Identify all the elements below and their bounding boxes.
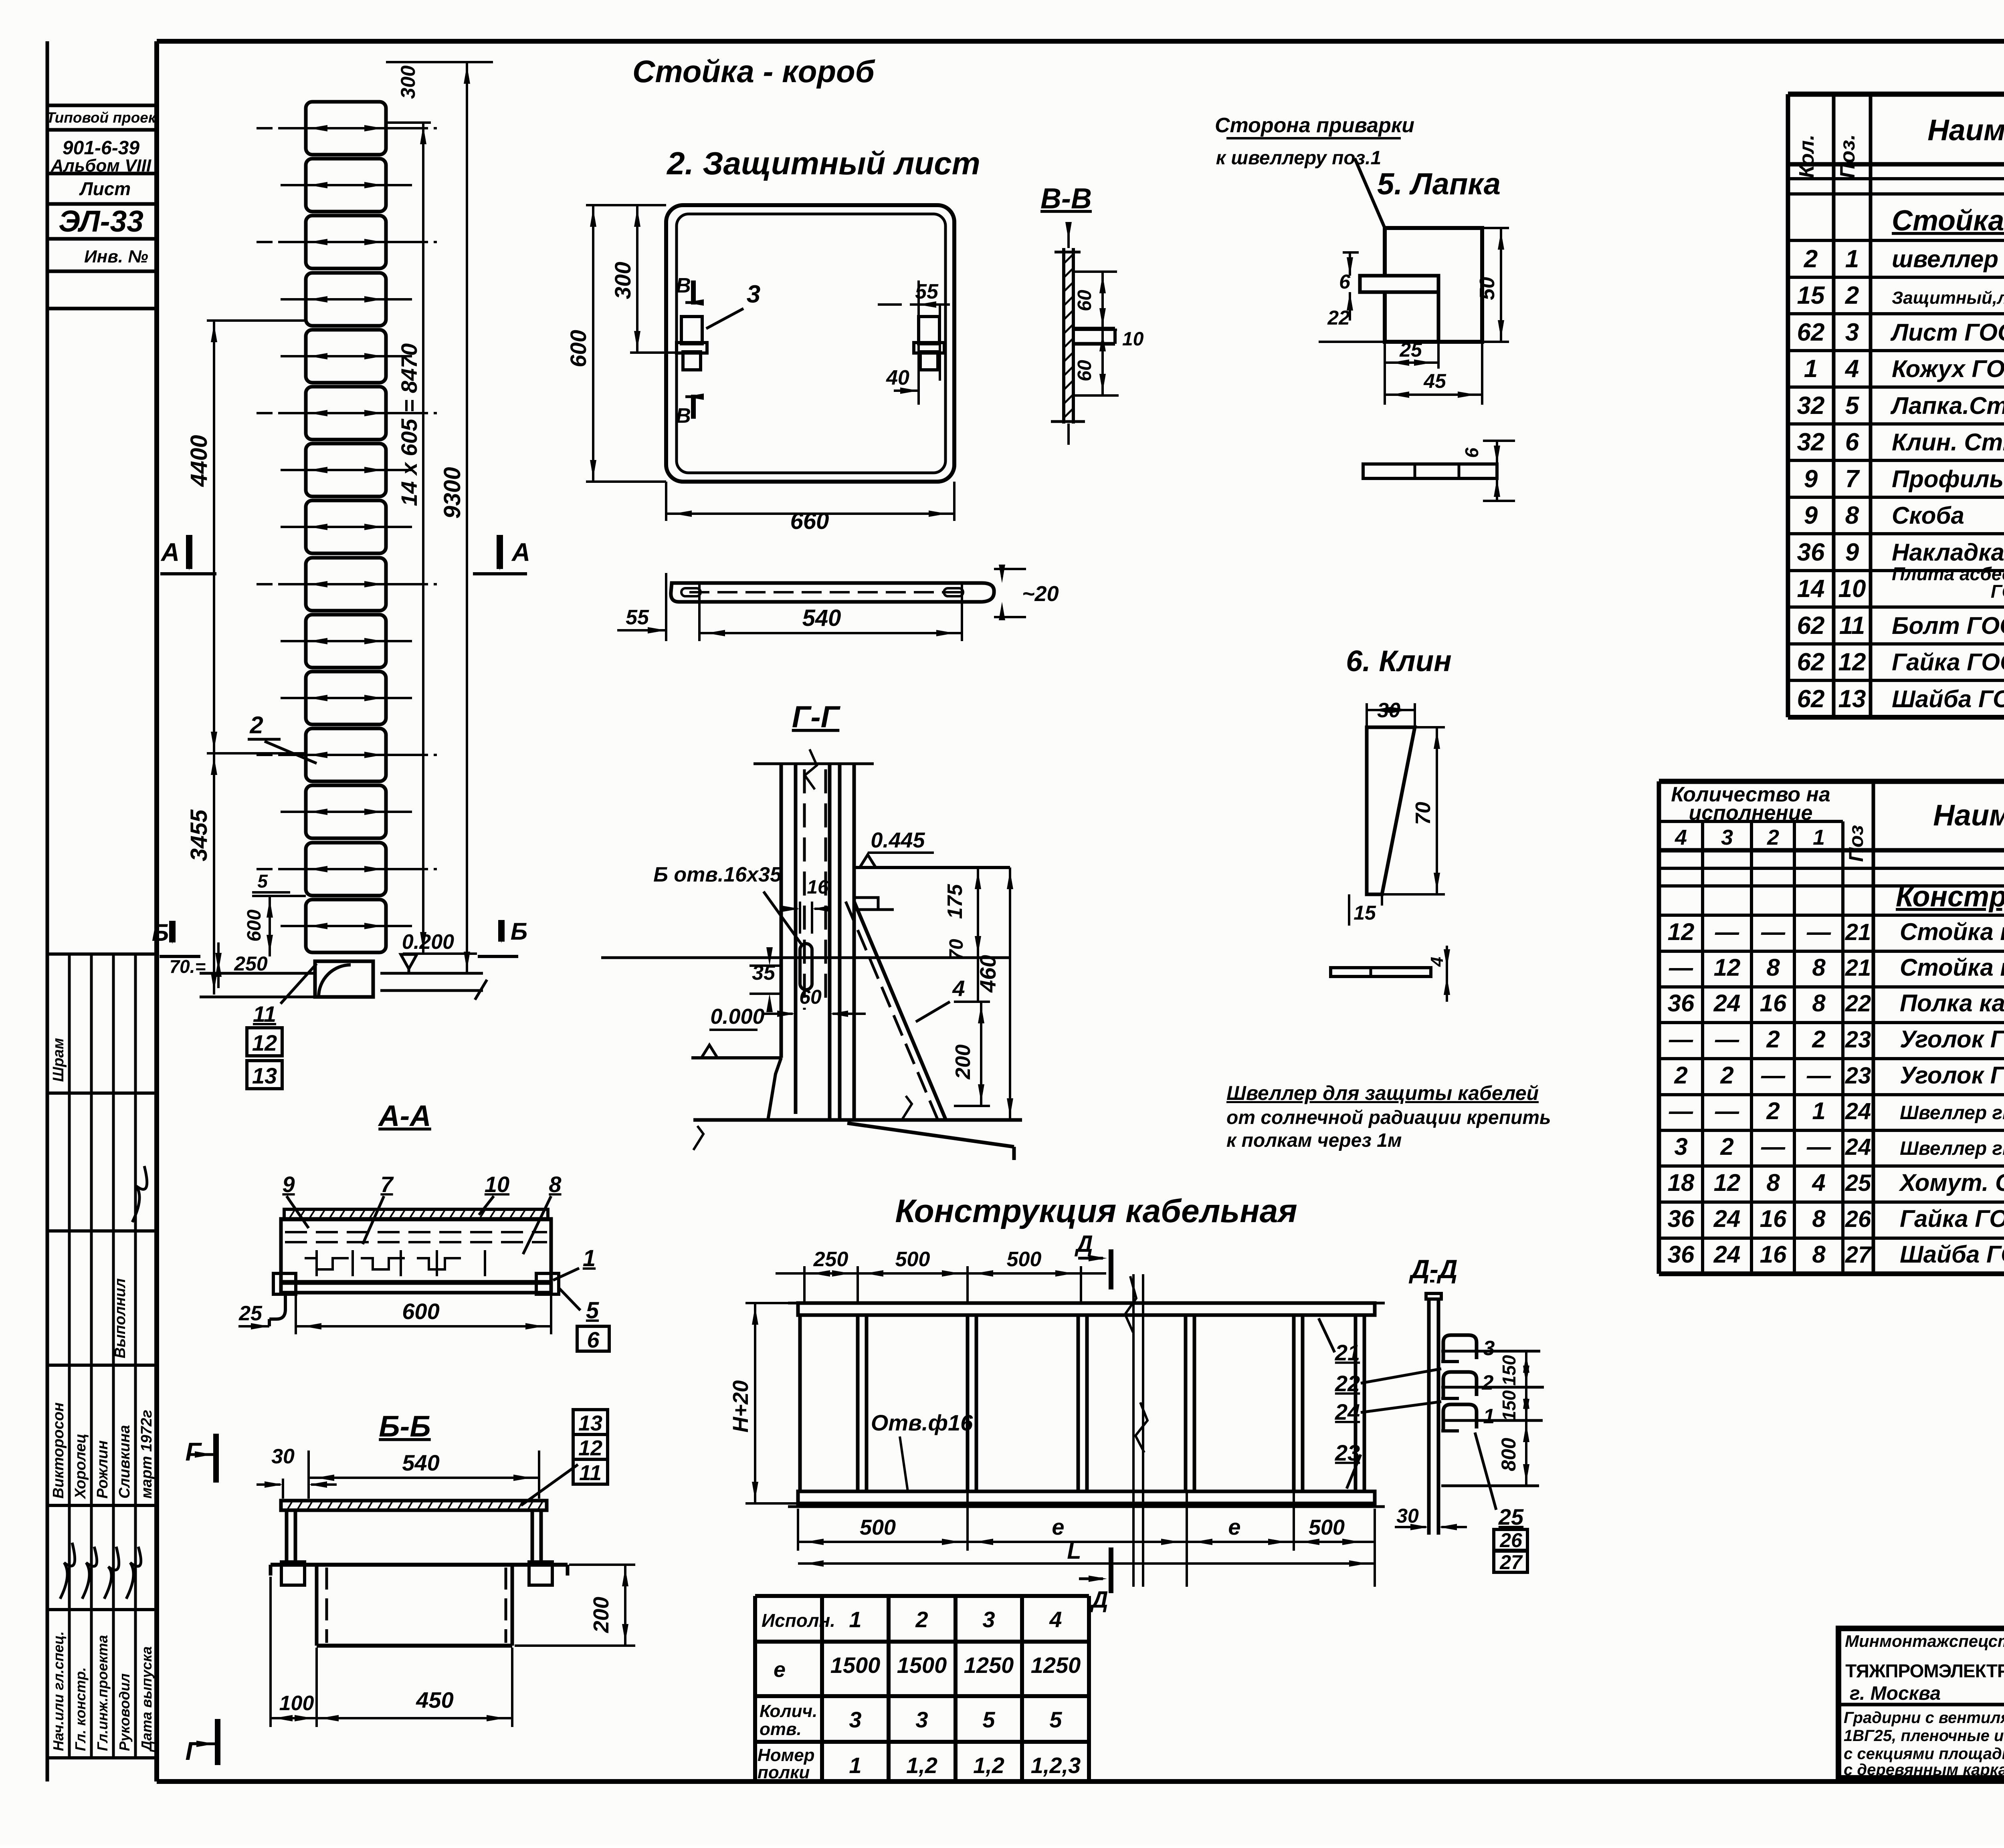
svg-text:Наименование: Наименование — [1927, 113, 2004, 147]
svg-text:15: 15 — [1797, 282, 1825, 309]
svg-text:к полкам через 1м: к полкам через 1м — [1226, 1130, 1402, 1151]
svg-text:е: е — [1228, 1514, 1240, 1539]
svg-text:26: 26 — [1845, 1206, 1871, 1232]
svg-text:12: 12 — [578, 1436, 602, 1460]
svg-text:18: 18 — [1668, 1169, 1695, 1196]
svg-text:1500: 1500 — [830, 1652, 881, 1678]
svg-text:—: — — [1669, 954, 1693, 981]
svg-text:швеллер ГОСТ 8240-56: швеллер ГОСТ 8240-56 — [1892, 246, 2004, 272]
svg-text:е: е — [1052, 1514, 1064, 1539]
svg-text:Нач.или гл.спец.: Нач.или гл.спец. — [50, 1631, 67, 1751]
svg-text:Сторона приварки: Сторона приварки — [1215, 114, 1414, 137]
svg-text:2: 2 — [1766, 1026, 1780, 1053]
svg-text:Инв. №: Инв. № — [84, 247, 148, 266]
svg-text:62: 62 — [1797, 648, 1825, 676]
svg-text:12: 12 — [1714, 1169, 1741, 1196]
svg-text:Г-Г: Г-Г — [792, 700, 841, 734]
svg-text:2: 2 — [1766, 1098, 1780, 1124]
svg-text:Лист: Лист — [79, 178, 131, 199]
svg-text:24: 24 — [1713, 1205, 1741, 1232]
svg-text:3: 3 — [1483, 1337, 1495, 1360]
svg-text:16: 16 — [807, 877, 828, 898]
svg-text:3455: 3455 — [186, 809, 212, 861]
svg-text:24: 24 — [1713, 1241, 1741, 1268]
svg-text:—: — — [1806, 918, 1831, 945]
svg-text:25: 25 — [1498, 1504, 1524, 1529]
svg-text:55: 55 — [626, 606, 649, 629]
svg-text:с деревянным каркасом: с деревянным каркасом — [1844, 1761, 2004, 1779]
svg-text:4: 4 — [1812, 1169, 1825, 1196]
svg-text:10: 10 — [485, 1172, 509, 1197]
svg-text:4: 4 — [1675, 825, 1687, 849]
svg-text:Лист ГОСТ 3680-57: Лист ГОСТ 3680-57 — [1890, 319, 2004, 346]
svg-text:Руководил: Руководил — [116, 1673, 133, 1751]
svg-text:Сливкина: Сливкина — [116, 1425, 133, 1499]
svg-text:22: 22 — [1327, 307, 1350, 329]
svg-text:исполнение: исполнение — [1689, 801, 1813, 825]
svg-text:В: В — [676, 274, 691, 297]
svg-text:60: 60 — [1074, 360, 1095, 381]
svg-text:62: 62 — [1797, 685, 1825, 713]
svg-text:1,2,3: 1,2,3 — [1031, 1753, 1081, 1778]
svg-text:~20: ~20 — [1022, 582, 1059, 606]
svg-text:Стойка кабельная: Стойка кабельная — [1900, 918, 2004, 945]
svg-text:Г: Г — [185, 1437, 202, 1466]
svg-text:2: 2 — [1482, 1371, 1494, 1394]
svg-text:5: 5 — [982, 1707, 995, 1732]
svg-text:25: 25 — [1845, 1170, 1871, 1196]
svg-text:30: 30 — [271, 1445, 295, 1468]
svg-text:70: 70 — [946, 939, 967, 960]
svg-text:2: 2 — [1720, 1133, 1733, 1160]
svg-text:24: 24 — [1713, 990, 1741, 1017]
svg-text:12: 12 — [252, 1030, 277, 1055]
svg-text:2: 2 — [1804, 245, 1818, 273]
svg-text:300: 300 — [610, 262, 635, 299]
svg-text:250: 250 — [234, 952, 268, 975]
svg-text:21: 21 — [1335, 1340, 1360, 1365]
svg-text:36: 36 — [1668, 990, 1695, 1017]
svg-text:600: 600 — [244, 910, 265, 942]
svg-text:Гайка ГОСТ 5915-70: Гайка ГОСТ 5915-70 — [1892, 649, 2004, 676]
svg-text:1,2: 1,2 — [973, 1753, 1004, 1778]
svg-text:16: 16 — [1760, 990, 1787, 1017]
svg-text:25: 25 — [1399, 339, 1422, 361]
svg-text:6: 6 — [1845, 428, 1859, 456]
svg-text:2: 2 — [1720, 1062, 1733, 1089]
svg-text:Стойка - короб: Стойка - короб — [632, 54, 875, 89]
svg-text:Гл.инж.проекта: Гл.инж.проекта — [94, 1635, 111, 1751]
svg-text:22: 22 — [1335, 1371, 1360, 1396]
svg-text:1500: 1500 — [897, 1652, 947, 1678]
svg-text:А-А: А-А — [378, 1099, 431, 1132]
svg-text:Градирни с вентиляторами: Градирни с вентиляторами — [1844, 1709, 2004, 1727]
svg-text:11: 11 — [1839, 612, 1865, 640]
svg-text:Д: Д — [1074, 1231, 1093, 1257]
svg-text:—: — — [1715, 1026, 1739, 1053]
svg-text:—: — — [1761, 1133, 1786, 1160]
svg-text:Рожлин: Рожлин — [94, 1440, 111, 1499]
svg-text:Лапка.Ст. ГОСТ103-57: Лапка.Ст. ГОСТ103-57 — [1890, 392, 2004, 419]
svg-text:16: 16 — [1760, 1241, 1787, 1268]
svg-text:36: 36 — [1668, 1241, 1695, 1268]
svg-text:ТЯЖПРОМЭЛЕКТРОПРОЕКТ: ТЯЖПРОМЭЛЕКТРОПРОЕКТ — [1845, 1660, 2004, 1681]
svg-text:450: 450 — [416, 1687, 453, 1713]
svg-text:Профиль монтажный: Профиль монтажный — [1892, 466, 2004, 492]
svg-text:600: 600 — [566, 330, 591, 367]
svg-text:540: 540 — [802, 605, 841, 631]
svg-text:1ВГ25, пленочные и капельные: 1ВГ25, пленочные и капельные — [1844, 1727, 2004, 1745]
svg-text:23: 23 — [1845, 1063, 1871, 1089]
svg-text:36: 36 — [1668, 1205, 1695, 1232]
svg-text:5: 5 — [257, 871, 268, 892]
svg-text:22: 22 — [1845, 991, 1871, 1017]
svg-text:с секциями площадью 16кв.м: с секциями площадью 16кв.м — [1844, 1745, 2004, 1763]
svg-text:Накладка: Накладка — [1892, 539, 2004, 566]
svg-text:3: 3 — [849, 1707, 861, 1732]
svg-text:11: 11 — [253, 1001, 276, 1027]
svg-text:Поз: Поз — [1845, 825, 1867, 862]
svg-text:В-В: В-В — [1040, 183, 1092, 215]
svg-text:Швеллер гнутый ГОСТ8278-63: Швеллер гнутый ГОСТ8278-63 — [1900, 1102, 2004, 1124]
svg-text:200: 200 — [951, 1045, 975, 1080]
svg-text:8: 8 — [1845, 502, 1859, 529]
svg-text:Исполн.: Исполн. — [762, 1610, 835, 1631]
svg-text:полки: полки — [758, 1763, 810, 1782]
svg-text:Стойка-короб: Стойка-короб — [1892, 205, 2004, 237]
svg-text:9: 9 — [1845, 539, 1859, 566]
svg-text:800: 800 — [1497, 1438, 1520, 1471]
svg-text:8: 8 — [1812, 954, 1826, 981]
svg-text:200: 200 — [589, 1597, 613, 1633]
svg-text:32: 32 — [1797, 428, 1825, 456]
svg-text:Б: Б — [511, 918, 527, 945]
svg-text:Выполнил: Выполнил — [112, 1278, 129, 1358]
svg-text:отв.: отв. — [760, 1719, 802, 1739]
svg-text:Швеллер гнутый ГОСТ8278-63: Швеллер гнутый ГОСТ8278-63 — [1900, 1138, 2004, 1159]
svg-text:7: 7 — [1845, 465, 1860, 493]
svg-text:Полка кабельная: Полка кабельная — [1900, 990, 2004, 1017]
svg-text:14 х 605 = 8470: 14 х 605 = 8470 — [396, 343, 422, 506]
svg-text:13: 13 — [1838, 685, 1866, 713]
svg-text:600: 600 — [402, 1299, 439, 1324]
svg-text:Уголок ГОСТ8509-57: Уголок ГОСТ8509-57 — [1900, 1026, 2004, 1053]
svg-text:2: 2 — [1845, 282, 1859, 309]
svg-text:—: — — [1761, 1062, 1786, 1089]
svg-text:13: 13 — [578, 1411, 602, 1435]
svg-text:27: 27 — [1499, 1551, 1523, 1574]
svg-text:5: 5 — [1845, 392, 1860, 420]
svg-text:30: 30 — [1396, 1505, 1419, 1527]
svg-text:50: 50 — [1476, 277, 1499, 300]
svg-text:23: 23 — [1845, 1027, 1871, 1053]
svg-text:300: 300 — [397, 65, 419, 99]
svg-text:3: 3 — [1845, 319, 1859, 346]
svg-text:ЭЛ-33: ЭЛ-33 — [59, 204, 143, 238]
svg-text:Стойка кабельная: Стойка кабельная — [1900, 954, 2004, 981]
svg-text:32: 32 — [1797, 392, 1825, 420]
svg-text:100: 100 — [279, 1692, 314, 1715]
svg-text:от солнечной радиации крепить: от солнечной радиации крепить — [1226, 1107, 1551, 1128]
svg-text:—: — — [1669, 1098, 1693, 1124]
svg-text:4: 4 — [952, 976, 965, 1001]
svg-text:Скоба: Скоба — [1892, 502, 1964, 529]
svg-text:11: 11 — [579, 1461, 602, 1485]
svg-text:7: 7 — [380, 1172, 394, 1197]
svg-text:12: 12 — [1838, 648, 1866, 676]
svg-text:62: 62 — [1797, 612, 1825, 640]
svg-text:6: 6 — [1461, 448, 1482, 458]
svg-text:14: 14 — [1797, 575, 1825, 603]
svg-text:2. Защитный лист: 2. Защитный лист — [666, 145, 980, 181]
svg-text:3: 3 — [915, 1707, 928, 1732]
svg-text:Б: Б — [152, 919, 169, 946]
svg-text:2: 2 — [1767, 825, 1779, 849]
svg-text:Д: Д — [1089, 1587, 1108, 1613]
svg-text:4400: 4400 — [186, 435, 212, 487]
svg-text:Шайба ГОСТ11371-68: Шайба ГОСТ11371-68 — [1900, 1241, 2004, 1268]
svg-text:0.445: 0.445 — [871, 828, 925, 852]
svg-text:1,2: 1,2 — [906, 1753, 937, 1778]
svg-text:L: L — [1067, 1538, 1081, 1564]
svg-text:Хомут. Ст. ГОСТ2590-57: Хомут. Ст. ГОСТ2590-57 — [1899, 1169, 2004, 1196]
svg-text:40: 40 — [886, 366, 909, 389]
svg-text:8: 8 — [1812, 1205, 1826, 1232]
svg-text:25: 25 — [238, 1302, 263, 1325]
svg-text:Г: Г — [185, 1737, 202, 1765]
svg-text:Плита асбестоцементная: Плита асбестоцементная — [1892, 563, 2004, 584]
svg-text:Типовой проек: Типовой проек — [46, 109, 156, 126]
svg-text:—: — — [1806, 1133, 1831, 1160]
svg-text:4: 4 — [1427, 957, 1447, 967]
svg-text:21: 21 — [1845, 919, 1871, 945]
svg-text:Номер: Номер — [758, 1745, 815, 1765]
svg-text:Швеллер для защиты кабелей: Швеллер для защиты кабелей — [1226, 1082, 1539, 1104]
svg-text:3: 3 — [1721, 825, 1733, 849]
svg-text:Н+20: Н+20 — [729, 1380, 753, 1433]
svg-text:г. Москва: г. Москва — [1850, 1683, 1941, 1704]
svg-text:45: 45 — [1423, 370, 1446, 392]
svg-text:2: 2 — [915, 1607, 928, 1632]
svg-text:Конструкция кабельная: Конструкция кабельная — [1896, 881, 2004, 913]
svg-text:Кол.: Кол. — [1795, 135, 1818, 178]
svg-text:24: 24 — [1845, 1134, 1871, 1160]
svg-text:13: 13 — [252, 1063, 277, 1088]
svg-text:Б-Б: Б-Б — [379, 1410, 430, 1443]
svg-text:8: 8 — [549, 1172, 562, 1197]
svg-text:1: 1 — [1845, 245, 1859, 273]
svg-text:Шрам: Шрам — [50, 1038, 67, 1082]
svg-text:1: 1 — [849, 1753, 861, 1778]
svg-text:5. Лапка: 5. Лапка — [1377, 167, 1501, 201]
svg-text:660: 660 — [790, 508, 829, 534]
svg-text:540: 540 — [402, 1450, 439, 1475]
svg-text:5: 5 — [586, 1297, 599, 1323]
svg-text:Хоролец: Хоролец — [72, 1434, 89, 1499]
svg-text:4: 4 — [1844, 355, 1859, 383]
svg-text:—: — — [1715, 1098, 1739, 1124]
svg-text:1: 1 — [1483, 1405, 1495, 1428]
svg-text:1: 1 — [849, 1607, 861, 1632]
svg-text:0.000: 0.000 — [710, 1005, 764, 1029]
svg-text:Конструкция кабельная: Конструкция кабельная — [895, 1193, 1297, 1229]
svg-text:е: е — [774, 1658, 786, 1682]
svg-text:Викторосон: Викторосон — [50, 1402, 67, 1499]
svg-text:2: 2 — [249, 712, 263, 738]
svg-text:500: 500 — [860, 1515, 896, 1539]
svg-text:1250: 1250 — [1031, 1652, 1081, 1678]
svg-text:1: 1 — [1813, 825, 1825, 849]
svg-text:16: 16 — [1760, 1205, 1787, 1232]
svg-text:15: 15 — [1354, 902, 1376, 924]
svg-text:460: 460 — [975, 955, 1000, 993]
svg-text:2: 2 — [1812, 1026, 1825, 1053]
svg-text:24: 24 — [1845, 1098, 1871, 1124]
svg-text:6. Клин: 6. Клин — [1346, 644, 1452, 678]
svg-text:150: 150 — [1499, 1390, 1519, 1421]
svg-text:10: 10 — [1838, 575, 1866, 603]
svg-text:Гайка ГОСТ5915-70: Гайка ГОСТ5915-70 — [1900, 1205, 2004, 1232]
svg-text:Поз.: Поз. — [1836, 134, 1859, 178]
svg-text:150: 150 — [1499, 1355, 1519, 1386]
svg-text:26: 26 — [1499, 1529, 1523, 1551]
svg-text:3: 3 — [982, 1607, 995, 1632]
svg-text:60: 60 — [799, 986, 822, 1008]
svg-text:Д-Д: Д-Д — [1408, 1254, 1457, 1284]
svg-text:500: 500 — [895, 1248, 930, 1271]
svg-text:Уголок ГОСТ8509-57: Уголок ГОСТ8509-57 — [1900, 1062, 2004, 1089]
svg-text:1: 1 — [1804, 355, 1818, 383]
svg-text:6: 6 — [587, 1327, 600, 1352]
svg-text:—: — — [1669, 1026, 1693, 1053]
svg-text:9300: 9300 — [439, 467, 465, 518]
svg-text:9: 9 — [1804, 502, 1818, 529]
svg-text:Защитный,лист,Ст.ГОСТ3680-57: Защитный,лист,Ст.ГОСТ3680-57 — [1892, 288, 2004, 308]
svg-text:36: 36 — [1797, 539, 1825, 566]
svg-text:21: 21 — [1845, 955, 1871, 981]
svg-text:3: 3 — [1674, 1133, 1687, 1160]
svg-text:А: А — [160, 538, 180, 567]
svg-text:8: 8 — [1766, 1169, 1780, 1196]
svg-text:24: 24 — [1335, 1399, 1360, 1424]
svg-text:Наименование: Наименование — [1933, 799, 2004, 832]
svg-text:8: 8 — [1766, 954, 1780, 981]
svg-text:В: В — [676, 404, 691, 428]
svg-text:175: 175 — [943, 884, 967, 919]
svg-text:5: 5 — [1049, 1707, 1062, 1732]
svg-text:8: 8 — [1812, 990, 1826, 1017]
svg-text:Клин. Ст. ГОСТ103-57: Клин. Ст. ГОСТ103-57 — [1892, 429, 2004, 456]
svg-text:Болт ГОСТ 7798-62: Болт ГОСТ 7798-62 — [1892, 612, 2004, 639]
svg-text:12: 12 — [1668, 918, 1695, 945]
svg-text:Минмонтажспецстрой СССР: Минмонтажспецстрой СССР — [1845, 1632, 2004, 1650]
svg-text:Колич.: Колич. — [760, 1701, 817, 1721]
svg-text:Альбом VIII: Альбом VIII — [51, 156, 152, 176]
svg-text:Б отв.16х35: Б отв.16х35 — [653, 863, 782, 886]
svg-text:3: 3 — [747, 280, 760, 308]
svg-text:10: 10 — [1122, 329, 1144, 350]
svg-text:0.200: 0.200 — [402, 930, 454, 954]
svg-text:500: 500 — [1007, 1248, 1042, 1271]
svg-text:1250: 1250 — [964, 1652, 1014, 1678]
svg-text:4: 4 — [1049, 1607, 1062, 1632]
svg-text:1: 1 — [583, 1245, 596, 1271]
svg-text:60: 60 — [1074, 290, 1095, 311]
svg-text:Дата выпуска: Дата выпуска — [138, 1646, 155, 1752]
svg-text:А: А — [511, 538, 530, 567]
svg-text:62: 62 — [1797, 319, 1825, 346]
svg-text:70: 70 — [1412, 802, 1435, 825]
svg-text:Кожух ГОСТ 3680-57: Кожух ГОСТ 3680-57 — [1892, 355, 2004, 382]
svg-text:70.=: 70.= — [170, 956, 206, 977]
svg-text:Шайба ГОСТ 11371-68: Шайба ГОСТ 11371-68 — [1892, 686, 2004, 712]
svg-text:9: 9 — [282, 1172, 295, 1197]
svg-text:23: 23 — [1335, 1440, 1360, 1465]
svg-text:1: 1 — [1812, 1098, 1825, 1124]
svg-text:500: 500 — [1309, 1515, 1345, 1539]
svg-text:250: 250 — [813, 1248, 848, 1271]
svg-text:—: — — [1806, 1062, 1831, 1089]
svg-text:12: 12 — [1714, 954, 1741, 981]
svg-text:9: 9 — [1804, 465, 1818, 493]
svg-text:март 1972г: март 1972г — [138, 1410, 155, 1499]
svg-text:—: — — [1761, 918, 1786, 945]
svg-text:2: 2 — [1674, 1062, 1687, 1089]
svg-text:ГОСТ929-59: ГОСТ929-59 — [1991, 581, 2004, 602]
svg-text:Гл. констр.: Гл. констр. — [72, 1667, 89, 1751]
svg-text:27: 27 — [1845, 1242, 1872, 1268]
svg-text:Отв.ф16: Отв.ф16 — [871, 1410, 973, 1435]
svg-text:8: 8 — [1812, 1241, 1826, 1268]
svg-text:—: — — [1715, 918, 1739, 945]
